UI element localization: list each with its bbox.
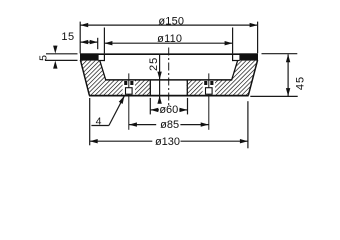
outer edge right bbox=[248, 60, 257, 95]
svg-text:ø150: ø150 bbox=[158, 15, 184, 27]
outer edge left bbox=[80, 60, 89, 95]
dim dia60 ext line right bbox=[187, 98, 189, 115]
top face line bbox=[80, 53, 258, 55]
centerline bbox=[168, 48, 170, 107]
dim dia150 ext line left bbox=[79, 22, 81, 54]
left boss void bbox=[123, 80, 135, 95]
dim 5 up arrow bbox=[54, 64, 56, 68]
right boss square hole bbox=[206, 88, 213, 95]
right boss section mark B bbox=[210, 81, 213, 85]
dim 45 bottom ext line bbox=[250, 95, 297, 97]
right step line bbox=[232, 60, 240, 62]
dim dia110 ext line right bbox=[232, 28, 234, 54]
rim inner edge right bbox=[232, 54, 234, 61]
dim dia150 ext line right bbox=[257, 22, 259, 54]
dim dia150 line bbox=[80, 24, 257, 26]
dim 5 upper ext line bbox=[46, 53, 78, 55]
left boss section mark B bbox=[130, 81, 133, 85]
svg-text:45: 45 bbox=[295, 76, 307, 90]
rim inner edge left bbox=[103, 54, 105, 61]
seal ring left (solid section) bbox=[80, 53, 99, 60]
left step line bbox=[98, 60, 105, 62]
left boss square hole bbox=[126, 88, 133, 95]
central hole wall right bbox=[186, 81, 188, 96]
dim 5 down arrow bbox=[54, 46, 56, 50]
dim 5 lower ext line bbox=[45, 59, 78, 61]
leader shoulder of label 4 bbox=[91, 125, 109, 127]
svg-text:ø110: ø110 bbox=[157, 33, 182, 45]
dim 15 line bbox=[80, 41, 98, 43]
central hole wall left bbox=[149, 81, 151, 96]
left boss centerline / ext of dia85 bbox=[128, 73, 130, 129]
svg-text:15: 15 bbox=[61, 31, 74, 43]
dim dia130 ext line right bbox=[247, 101, 249, 148]
left boss section mark A bbox=[124, 81, 127, 85]
dim dia60 ext line left bbox=[149, 98, 151, 115]
dim 45 line bbox=[287, 54, 289, 96]
cavity wall slope right bbox=[232, 61, 238, 80]
right boss centerline / ext of dia85 bbox=[208, 73, 210, 129]
dim dia110 line bbox=[104, 42, 232, 44]
central hole void bbox=[151, 80, 187, 95]
svg-text:ø85: ø85 bbox=[160, 119, 179, 131]
dim 15 ext line right bbox=[97, 38, 99, 49]
cavity wall slope left bbox=[100, 61, 106, 80]
bottom face line bbox=[89, 95, 249, 97]
dim dia110 ext line left bbox=[103, 28, 105, 54]
svg-text:ø130: ø130 bbox=[155, 136, 180, 148]
leader line of label 4 bbox=[109, 96, 125, 126]
svg-text:ø60: ø60 bbox=[159, 104, 178, 116]
dim dia60 line bbox=[150, 109, 159, 111]
dim dia130 line bbox=[90, 140, 153, 142]
right boss section mark A bbox=[204, 81, 207, 85]
seal ring right (solid section) bbox=[239, 53, 258, 60]
cavity floor line bbox=[105, 79, 232, 81]
dim dia130 ext line left bbox=[89, 98, 91, 145]
svg-text:5: 5 bbox=[38, 55, 50, 61]
section body (walls + base) hatched bbox=[81, 61, 258, 96]
dim 25 line bbox=[159, 54, 161, 102]
dim 45 top ext line bbox=[262, 53, 298, 55]
right boss void bbox=[203, 80, 215, 95]
svg-text:25: 25 bbox=[148, 57, 160, 71]
dim dia85 line bbox=[129, 124, 156, 126]
